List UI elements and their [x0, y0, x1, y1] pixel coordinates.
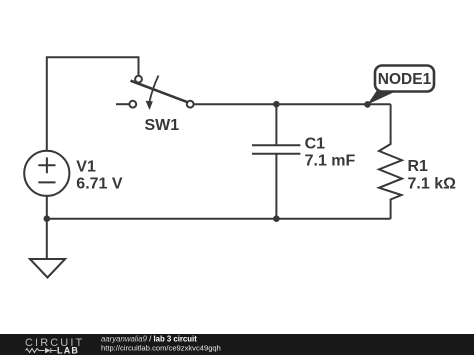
- SW1 terminal left throw: [129, 101, 136, 108]
- NODE1 anchor dot: [364, 101, 371, 108]
- capacitor C1: [252, 104, 300, 219]
- svg-text:LAB: LAB: [57, 346, 79, 355]
- SW1 terminal top: [135, 76, 142, 83]
- NODE1 tail: [367, 91, 396, 105]
- node junction C1 top: [273, 101, 280, 108]
- SW1 terminal common: [187, 101, 194, 108]
- node NODE1 callout: [364, 66, 434, 108]
- svg-text:http://circuitlab.com/ce9zxkvc: http://circuitlab.com/ce9zxkvc49gqh: [101, 344, 221, 353]
- footer bar: [0, 334, 474, 355]
- svg-text:aaryanwalia9 / lab 3 circuit: aaryanwalia9 / lab 3 circuit: [101, 334, 197, 343]
- CircuitLab logo zigzag-diode: [26, 348, 57, 353]
- wire switch common to R1 top corner: [193, 103, 390, 105]
- SW1 lever: [131, 81, 188, 103]
- SW1 actuator arrow: [149, 76, 158, 103]
- svg-text:6.71 V: 6.71 V: [76, 176, 123, 193]
- ground: [30, 259, 65, 278]
- svg-text:NODE1: NODE1: [378, 71, 432, 88]
- wire V1 top to switch: [47, 57, 139, 151]
- node junction C1 bottom: [273, 215, 280, 222]
- svg-text:C1: C1: [305, 136, 326, 153]
- resistor R1: [379, 104, 402, 219]
- svg-text:7.1 kΩ: 7.1 kΩ: [408, 176, 457, 193]
- wire V1 bottom to ground: [46, 196, 48, 259]
- voltage source V1: [24, 151, 123, 196]
- wire bottom rail: [47, 218, 391, 220]
- svg-text:R1: R1: [408, 158, 429, 175]
- svg-text:SW1: SW1: [145, 117, 180, 134]
- svg-text:V1: V1: [76, 159, 96, 176]
- NODE1 box: [375, 66, 434, 92]
- node junction bottom left: [44, 215, 51, 222]
- svg-text:7.1 mF: 7.1 mF: [305, 153, 356, 170]
- wire switch unused throw stub: [116, 103, 130, 105]
- switch SW1: [129, 76, 193, 135]
